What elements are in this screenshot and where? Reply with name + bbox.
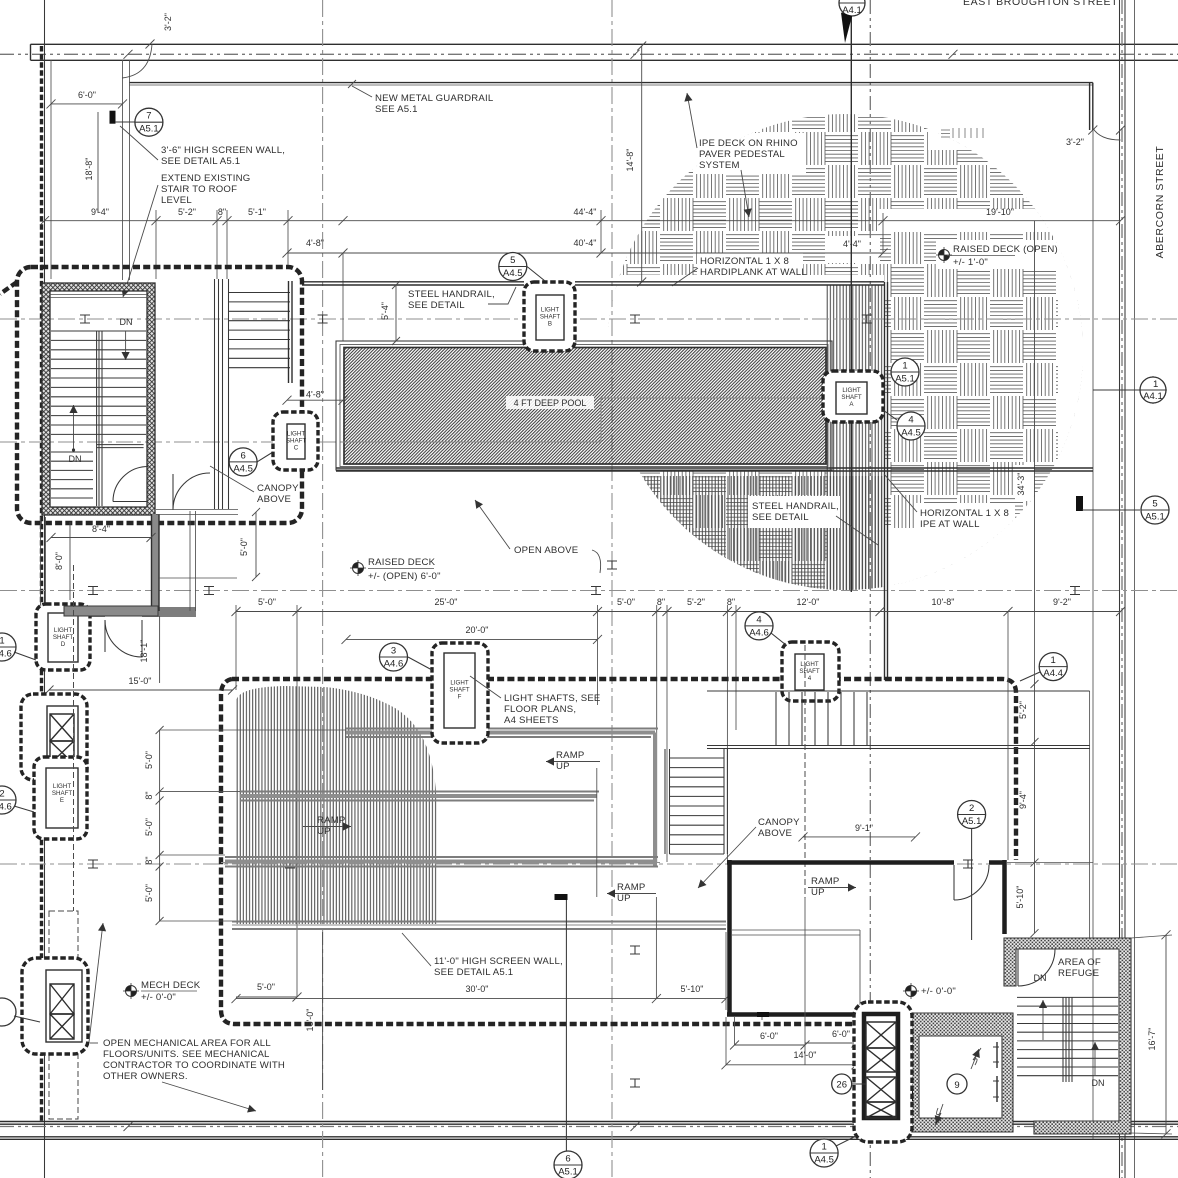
svg-text:9'-2": 9'-2" — [1053, 597, 1071, 607]
svg-text:1: 1 — [0, 636, 5, 647]
street centerline ticks — [124, 50, 133, 59]
svg-text:F: F — [458, 694, 462, 701]
elevator doors inside — [996, 1042, 998, 1102]
svg-text:40'-4": 40'-4" — [574, 238, 597, 248]
svg-text:1: 1 — [902, 361, 907, 372]
canopy room door — [954, 865, 989, 900]
svg-text:4'-8": 4'-8" — [306, 390, 324, 400]
svg-text:OTHER OWNERS.: OTHER OWNERS. — [103, 1071, 188, 1082]
svg-text:UP: UP — [317, 826, 331, 837]
svg-text:10'-8": 10'-8" — [932, 597, 955, 607]
raised deck +/- 6-0 note — [350, 560, 366, 576]
landing edge mid — [97, 445, 144, 448]
callout 2/A5.1 — [958, 801, 986, 829]
svg-text:A4.6: A4.6 — [0, 649, 12, 660]
light shaft F — [432, 643, 488, 743]
mech dashed boundary rect — [49, 911, 78, 1119]
svg-text:SHAFT: SHAFT — [53, 634, 74, 641]
svg-text:2: 2 — [0, 789, 5, 800]
A4.1 top marker — [839, 0, 865, 43]
svg-text:5: 5 — [1152, 499, 1157, 510]
svg-text:A4.5: A4.5 — [814, 1155, 834, 1166]
svg-text:18'-8": 18'-8" — [84, 158, 94, 181]
light shaft E upper dashed — [21, 694, 87, 780]
area of refuge walls (stipple) — [1004, 938, 1131, 1134]
dash centerline through ramp — [221, 862, 660, 864]
pool bottom wall — [336, 468, 1093, 471]
door leaf marker — [908, 1087, 913, 1101]
svg-text:1: 1 — [1051, 655, 1056, 666]
19-10 extension — [601, 210, 883, 253]
svg-text:LEVEL: LEVEL — [161, 195, 192, 206]
svg-text:A4.6: A4.6 — [0, 802, 12, 813]
svg-text:IPE DECK ON RHINO: IPE DECK ON RHINO — [699, 138, 798, 149]
IPE paver deck circle (basket-weave hatch) — [336, 100, 1124, 600]
svg-text:5'-0": 5'-0" — [144, 884, 154, 902]
svg-text:CANOPY: CANOPY — [758, 817, 800, 828]
4 ft deep pool — [336, 341, 832, 470]
svg-text:CANOPY: CANOPY — [257, 483, 299, 494]
section marker + 6/A5.1 — [555, 894, 568, 900]
svg-text:SEE DETAIL A5.1: SEE DETAIL A5.1 — [161, 156, 240, 167]
extension verticals for top dims — [156, 210, 288, 279]
light shaft E lower dashed — [34, 757, 87, 839]
svg-text:DN: DN — [1034, 973, 1047, 983]
light shaft 4 (right) — [782, 642, 839, 701]
raised deck open note — [936, 247, 952, 263]
svg-text:5'-10": 5'-10" — [681, 984, 704, 994]
svg-text:LIGHT: LIGHT — [450, 680, 468, 687]
svg-text:A4.5: A4.5 — [233, 463, 253, 474]
svg-text:LIGHT: LIGHT — [541, 307, 559, 314]
svg-text:6'-0": 6'-0" — [760, 1031, 778, 1041]
door south room — [105, 620, 142, 657]
canopy above dashed outline — [17, 267, 302, 523]
svg-text:26: 26 — [836, 1080, 847, 1091]
mid stair (horizontal treads) — [665, 749, 727, 854]
svg-text:SHAFT: SHAFT — [286, 438, 307, 445]
svg-text:14'-8": 14'-8" — [625, 149, 635, 172]
svg-text:6'-0": 6'-0" — [78, 90, 96, 100]
wall right of pool — [885, 282, 888, 680]
svg-text:SEE DETAIL: SEE DETAIL — [408, 300, 465, 311]
svg-text:LIGHT: LIGHT — [287, 431, 305, 438]
svg-text:A5.1: A5.1 — [558, 1167, 578, 1178]
section line crossing pool — [343, 398, 825, 442]
light shaft D — [36, 604, 90, 670]
svg-text:EAST BROUGHTON STREET: EAST BROUGHTON STREET — [963, 0, 1118, 8]
svg-text:9'-1": 9'-1" — [855, 823, 873, 833]
svg-text:A4.6: A4.6 — [749, 627, 769, 638]
svg-text:ABOVE: ABOVE — [758, 828, 792, 839]
svg-text:SHAFT: SHAFT — [540, 314, 561, 321]
centerline grid — [0, 318, 1178, 320]
svg-text:A5.1: A5.1 — [139, 124, 159, 135]
svg-text:NEW METAL GUARDRAIL: NEW METAL GUARDRAIL — [375, 93, 494, 104]
light shaft B — [524, 282, 575, 351]
svg-text:3'-2": 3'-2" — [1066, 137, 1084, 147]
svg-text:RAMP: RAMP — [617, 882, 646, 893]
left street line — [44, 0, 46, 1178]
existing stair rails — [215, 279, 229, 509]
svg-text:16'-7": 16'-7" — [1147, 1028, 1157, 1051]
svg-text:B: B — [548, 321, 552, 328]
black marker + 7/A5.1 — [110, 111, 116, 124]
mech deck note — [123, 983, 139, 999]
svg-text:FLOOR PLANS,: FLOOR PLANS, — [504, 704, 576, 715]
callout / — [0, 998, 16, 1026]
svg-text:8'-0": 8'-0" — [54, 552, 64, 570]
west building double line — [123, 60, 130, 280]
svg-text:4 FT DEEP POOL: 4 FT DEEP POOL — [514, 398, 587, 408]
svg-text:A4.1: A4.1 — [842, 5, 862, 16]
left vertical dims 5-0/8/5-0/8/5-0 — [159, 730, 161, 921]
svg-text:A4 SHEETS: A4 SHEETS — [504, 715, 559, 726]
callout 6/A4.5 — [229, 448, 257, 476]
5/A5.1 marker right — [1076, 496, 1083, 511]
new metal guardrail line — [129, 82, 1093, 84]
svg-text:+/- 0'-0": +/- 0'-0" — [141, 992, 176, 1003]
svg-text:E: E — [60, 797, 64, 804]
svg-text:SEE A5.1: SEE A5.1 — [375, 104, 418, 115]
svg-text:4'-8": 4'-8" — [306, 238, 324, 248]
9 callout with squiggles — [947, 1074, 967, 1094]
svg-text:5'-0": 5'-0" — [239, 538, 249, 556]
svg-text:SHAFT: SHAFT — [449, 687, 470, 694]
svg-text:5'-0": 5'-0" — [257, 982, 275, 992]
svg-text:8": 8" — [144, 791, 154, 799]
svg-text:5'-1": 5'-1" — [248, 207, 266, 217]
ramp area fan hatch — [236, 683, 442, 926]
svg-text:RAMP: RAMP — [811, 876, 840, 887]
svg-text:15'-0": 15'-0" — [129, 676, 152, 686]
svg-text:DN: DN — [1092, 1078, 1105, 1088]
svg-text:RAMP: RAMP — [317, 815, 346, 826]
svg-text:5'-2": 5'-2" — [687, 597, 705, 607]
svg-text:FLOORS/UNITS. SEE MECHANICAL: FLOORS/UNITS. SEE MECHANICAL — [103, 1049, 270, 1060]
left property heavy dashed — [40, 46, 43, 1122]
callout 2/A4.6 — [0, 786, 16, 814]
svg-text:1: 1 — [1153, 379, 1158, 390]
svg-text:1: 1 — [821, 1142, 826, 1153]
bottom elevator dashed — [22, 958, 88, 1054]
svg-text:6: 6 — [240, 450, 245, 461]
bottom screen wall — [232, 922, 726, 930]
svg-text:8'-4": 8'-4" — [92, 524, 110, 534]
svg-text:HARDIPLANK AT WALL: HARDIPLANK AT WALL — [700, 267, 807, 278]
bottom street band — [0, 1122, 1178, 1140]
svg-text:3'-2": 3'-2" — [163, 13, 173, 31]
svg-text:9: 9 — [954, 1080, 959, 1091]
svg-text:STEEL HANDRAIL,: STEEL HANDRAIL, — [752, 501, 839, 512]
svg-text:4: 4 — [908, 415, 913, 426]
svg-text:MECH DECK: MECH DECK — [141, 980, 201, 991]
svg-text:9'-4": 9'-4" — [1018, 791, 1028, 809]
East Broughton Street band (top) — [31, 44, 1178, 60]
mech area dashed line up — [73, 565, 75, 911]
section line from A4.1 marker — [850, 16, 852, 592]
6-0 dim — [51, 103, 123, 105]
svg-text:SEE DETAIL A5.1: SEE DETAIL A5.1 — [434, 967, 513, 978]
svg-text:25'-0": 25'-0" — [435, 597, 458, 607]
svg-text:5'-0": 5'-0" — [144, 751, 154, 769]
svg-text:LIGHT: LIGHT — [53, 783, 71, 790]
+/- 0-0 note — [903, 983, 919, 999]
svg-text:4: 4 — [808, 675, 812, 682]
svg-text:20'-0": 20'-0" — [466, 625, 489, 635]
svg-text:8": 8" — [218, 207, 226, 217]
svg-text:ABERCORN STREET: ABERCORN STREET — [1154, 146, 1166, 259]
svg-text:OPEN MECHANICAL AREA FOR ALL: OPEN MECHANICAL AREA FOR ALL — [103, 1038, 271, 1049]
svg-text:C: C — [294, 445, 299, 452]
svg-text:3'-6" HIGH SCREEN WALL,: 3'-6" HIGH SCREEN WALL, — [161, 145, 285, 156]
svg-text:RAMP: RAMP — [556, 750, 585, 761]
svg-text:AREA OF: AREA OF — [1058, 957, 1101, 968]
svg-text:SYSTEM: SYSTEM — [699, 160, 740, 171]
callout 1/A4.4 — [1039, 653, 1067, 681]
svg-text:8": 8" — [144, 856, 154, 864]
light shaft A — [823, 371, 883, 422]
svg-text:3: 3 — [391, 646, 396, 657]
svg-text:5'-10": 5'-10" — [1015, 886, 1025, 909]
callout 4/A4.5 — [897, 412, 925, 440]
extension lines for mid dims — [236, 605, 736, 997]
callout 5/A4.5 — [499, 253, 527, 281]
middle dimension row — [236, 611, 1121, 613]
svg-text:5'-2": 5'-2" — [1018, 701, 1028, 719]
svg-text:5'-2": 5'-2" — [178, 207, 196, 217]
svg-text:REFUGE: REFUGE — [1058, 968, 1099, 979]
refuge stair — [1017, 997, 1118, 1075]
Abercorn street lines (right) — [1119, 0, 1121, 1178]
existing stair treads — [229, 293, 290, 368]
svg-text:RAISED DECK (OPEN): RAISED DECK (OPEN) — [953, 244, 1058, 255]
svg-text:LIGHT: LIGHT — [842, 387, 860, 394]
svg-text:LIGHT: LIGHT — [800, 661, 818, 668]
svg-text:44'-4": 44'-4" — [574, 207, 597, 217]
4-8 dim left of pool — [283, 396, 292, 405]
svg-text:D: D — [61, 641, 66, 648]
callout 1/A5.1 — [891, 358, 919, 386]
callout 5/A5.1 — [1141, 496, 1169, 524]
ramp bars (gray) — [225, 733, 655, 867]
south room wall over shaft D — [64, 606, 158, 616]
top dimension row y=221 — [45, 220, 1121, 222]
30-0 dim — [236, 998, 656, 1000]
svg-text:9'-4": 9'-4" — [91, 207, 109, 217]
svg-text:2: 2 — [969, 803, 974, 814]
pool top wall (handrail) — [302, 282, 884, 285]
svg-text:CONTRACTOR TO COORDINATE WITH: CONTRACTOR TO COORDINATE WITH — [103, 1060, 285, 1071]
small black marker — [757, 1012, 769, 1017]
svg-text:19'-10": 19'-10" — [986, 207, 1014, 217]
callout 1/A4.6 — [0, 633, 16, 661]
stair treads lower flight — [51, 452, 93, 507]
15-0 dim — [49, 689, 233, 691]
svg-text:34'-3": 34'-3" — [1016, 473, 1026, 496]
svg-text:5'-4": 5'-4" — [380, 302, 390, 320]
5-0 dim — [236, 996, 297, 998]
svg-text:OPEN ABOVE: OPEN ABOVE — [514, 545, 578, 556]
south room walls — [41, 517, 46, 608]
A4.1 right marker — [1139, 376, 1167, 404]
refuge door — [1018, 949, 1055, 986]
building NE corner — [1090, 83, 1093, 130]
svg-text:UP: UP — [556, 761, 570, 772]
svg-text:8": 8" — [657, 597, 665, 607]
elevator lobby walls (stipple) — [898, 1013, 1013, 1132]
svg-text:16'-0": 16'-0" — [305, 1009, 315, 1032]
svg-text:SHAFT: SHAFT — [52, 790, 73, 797]
svg-text:RAISED DECK: RAISED DECK — [368, 557, 436, 568]
svg-text:SHAFT: SHAFT — [841, 394, 862, 401]
elevator bank dashed outline — [854, 1002, 912, 1142]
svg-text:A5.1: A5.1 — [1145, 512, 1165, 523]
20-0 dim — [346, 638, 598, 640]
callout 4/A4.6 — [745, 612, 773, 640]
svg-text:5'-0": 5'-0" — [144, 818, 154, 836]
40-4 dim row y=253 — [287, 252, 883, 254]
svg-text:PAVER PEDESTAL: PAVER PEDESTAL — [699, 149, 785, 160]
callout 26/ — [832, 1074, 852, 1094]
svg-text:LIGHT: LIGHT — [54, 627, 72, 634]
svg-text:A4.5: A4.5 — [503, 268, 523, 279]
svg-text:HORIZONTAL 1 X 8: HORIZONTAL 1 X 8 — [700, 256, 789, 267]
svg-text:+/- (OPEN) 6'-0": +/- (OPEN) 6'-0" — [368, 571, 441, 582]
svg-text:LIGHT SHAFTS, SEE: LIGHT SHAFTS, SEE — [504, 693, 601, 704]
door arc to mech area — [104, 620, 106, 652]
svg-text:11'-0" HIGH SCREEN WALL,: 11'-0" HIGH SCREEN WALL, — [434, 956, 563, 967]
canopy room thick walls — [727, 860, 1005, 1015]
svg-text:UP: UP — [811, 887, 825, 898]
svg-text:HORIZONTAL 1 X 8: HORIZONTAL 1 X 8 — [920, 508, 1009, 519]
svg-text:18'-1": 18'-1" — [139, 640, 149, 663]
svg-text:5: 5 — [510, 255, 515, 266]
svg-text:30'-0": 30'-0" — [466, 984, 489, 994]
callout 3/A4.6 — [380, 643, 408, 671]
upper stair verticals — [707, 691, 1090, 749]
svg-text:DN: DN — [69, 454, 82, 464]
svg-text:A5.1: A5.1 — [962, 816, 982, 827]
east building edge — [1092, 130, 1094, 1139]
svg-text:6'-0": 6'-0" — [832, 1029, 850, 1039]
interior lines — [732, 930, 860, 1020]
svg-text:8": 8" — [727, 597, 735, 607]
doors in stair block — [113, 467, 148, 502]
stair block outer walls (hatched) — [42, 283, 155, 515]
stair treads upper flight — [51, 331, 146, 434]
svg-text:A4.6: A4.6 — [384, 659, 404, 670]
callout 1/A4.5 — [810, 1139, 838, 1167]
svg-text:A4.5: A4.5 — [901, 428, 921, 439]
svg-text:SEE DETAIL: SEE DETAIL — [752, 512, 809, 523]
svg-text:4: 4 — [756, 614, 761, 625]
landing edge top — [50, 295, 147, 298]
svg-text:ABOVE: ABOVE — [257, 494, 291, 505]
elevator bank walls — [864, 1014, 898, 1118]
callout 6/A5.1 — [554, 1151, 582, 1178]
svg-text:UP: UP — [617, 893, 631, 904]
ramp/mech enclosure heavy dashed outline — [232, 679, 1016, 860]
svg-text:SHAFT: SHAFT — [799, 668, 820, 675]
svg-text:5'-0": 5'-0" — [258, 597, 276, 607]
svg-text:DN: DN — [120, 317, 133, 327]
svg-text:EXTEND EXISTING: EXTEND EXISTING — [161, 173, 250, 184]
svg-text:+/- 1'-0": +/- 1'-0" — [953, 257, 988, 268]
light shaft C — [273, 412, 318, 470]
svg-text:5'-0": 5'-0" — [617, 597, 635, 607]
svg-text:+/- 0'-0": +/- 0'-0" — [921, 986, 956, 997]
corridor right wall — [159, 511, 237, 611]
svg-text:STAIR TO ROOF: STAIR TO ROOF — [161, 184, 237, 195]
refuge bottom-right wall detail — [1033, 1121, 1035, 1134]
svg-text:7: 7 — [146, 111, 151, 122]
svg-text:A4.1: A4.1 — [1143, 391, 1163, 402]
svg-text:IPE AT WALL: IPE AT WALL — [920, 519, 980, 530]
callout 7/A5.1 — [135, 108, 163, 136]
4-4 dim top right — [829, 252, 881, 254]
svg-text:A4.4: A4.4 — [1043, 668, 1063, 679]
svg-text:STEEL HANDRAIL,: STEEL HANDRAIL, — [408, 289, 495, 300]
svg-text:12'-0": 12'-0" — [797, 597, 820, 607]
tick symbol in deck — [941, 130, 950, 137]
stair center divider — [97, 331, 102, 506]
svg-text:A5.1: A5.1 — [895, 374, 915, 385]
svg-text:6: 6 — [565, 1154, 570, 1165]
